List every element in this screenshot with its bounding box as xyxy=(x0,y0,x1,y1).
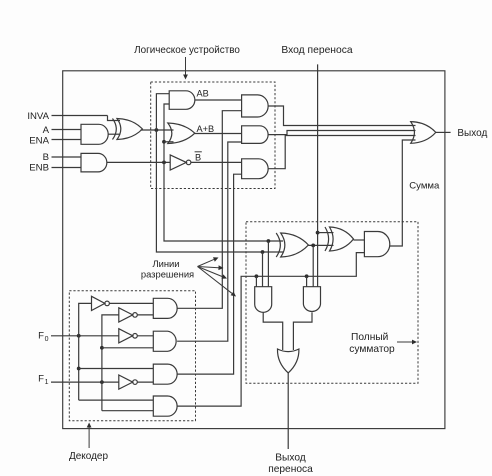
svg-text:разрешения: разрешения xyxy=(141,268,194,279)
svg-text:B: B xyxy=(195,153,201,163)
svg-text:AB: AB xyxy=(197,89,209,99)
svg-text:F: F xyxy=(38,373,44,384)
svg-text:Декодер: Декодер xyxy=(69,451,109,462)
svg-text:сумматор: сумматор xyxy=(349,344,395,355)
svg-text:0: 0 xyxy=(45,336,49,343)
svg-text:INVA: INVA xyxy=(27,111,49,122)
svg-text:A: A xyxy=(43,125,50,136)
svg-text:Линии: Линии xyxy=(152,258,179,269)
svg-text:Вход переноса: Вход переноса xyxy=(281,45,352,56)
svg-text:Сумма: Сумма xyxy=(409,180,440,191)
svg-text:A+B: A+B xyxy=(197,124,215,134)
svg-text:1: 1 xyxy=(45,379,49,386)
svg-text:Выход: Выход xyxy=(457,128,487,139)
svg-text:Полный: Полный xyxy=(351,332,388,343)
svg-text:Логическое устройство: Логическое устройство xyxy=(134,45,240,56)
svg-text:ENA: ENA xyxy=(29,136,49,147)
svg-text:ENB: ENB xyxy=(29,163,49,174)
svg-text:B: B xyxy=(43,152,49,163)
svg-text:переноса: переноса xyxy=(268,464,313,475)
svg-text:F: F xyxy=(38,330,44,341)
svg-text:Выход: Выход xyxy=(275,452,306,463)
